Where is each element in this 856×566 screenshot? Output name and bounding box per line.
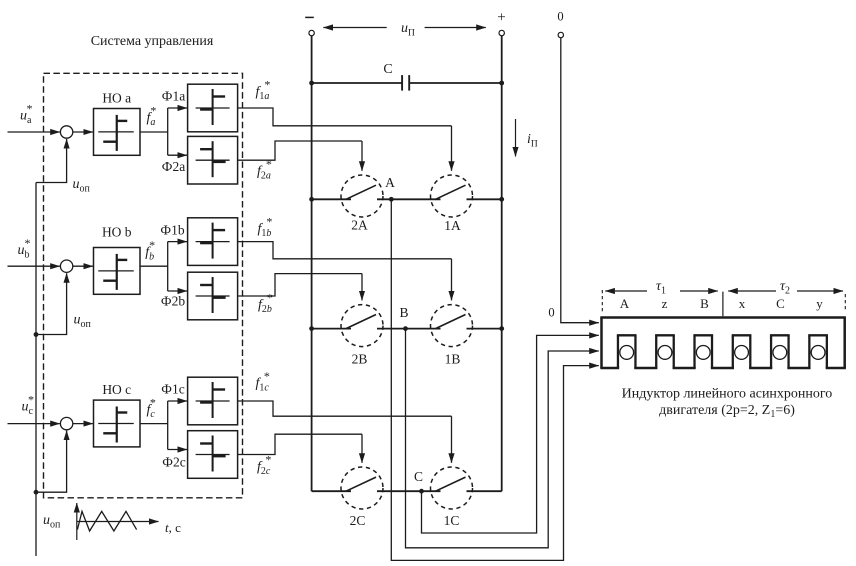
svg-text:C: C bbox=[383, 62, 392, 77]
svg-text:t, с: t, с bbox=[165, 520, 181, 535]
svg-text:HO c: HO c bbox=[102, 382, 131, 397]
svg-text:Ф2c: Ф2c bbox=[162, 455, 185, 470]
svg-text:+: + bbox=[497, 10, 505, 26]
svg-text:Ф1c: Ф1c bbox=[161, 382, 184, 397]
svg-text:2A: 2A bbox=[351, 218, 368, 233]
svg-text:A: A bbox=[385, 175, 395, 190]
svg-text:B: B bbox=[399, 305, 408, 320]
svg-text:0: 0 bbox=[548, 306, 554, 320]
svg-text:Ф2a: Ф2a bbox=[162, 159, 185, 174]
svg-text:Ф2b: Ф2b bbox=[161, 294, 185, 309]
svg-text:C: C bbox=[414, 469, 423, 484]
svg-text:z: z bbox=[662, 296, 668, 311]
svg-text:x: x bbox=[739, 296, 746, 311]
svg-text:1A: 1A bbox=[444, 218, 461, 233]
svg-text:2C: 2C bbox=[350, 513, 366, 528]
svg-text:A: A bbox=[620, 296, 630, 311]
svg-text:B: B bbox=[700, 296, 709, 311]
svg-text:y: y bbox=[816, 296, 823, 311]
svg-text:0: 0 bbox=[557, 10, 563, 24]
svg-text:Ф1a: Ф1a bbox=[162, 89, 185, 104]
svg-text:1C: 1C bbox=[444, 513, 460, 528]
svg-text:HO b: HO b bbox=[102, 225, 132, 240]
svg-text:двигателя (2p=2, Z1=6): двигателя (2p=2, Z1=6) bbox=[659, 403, 795, 420]
svg-text:Ф1b: Ф1b bbox=[160, 223, 184, 238]
svg-text:Индуктор линейного асинхронног: Индуктор линейного асинхронного bbox=[622, 387, 833, 402]
svg-text:HO a: HO a bbox=[102, 90, 131, 105]
svg-text:1B: 1B bbox=[445, 352, 461, 367]
svg-text:Система управления: Система управления bbox=[91, 34, 214, 49]
svg-text:2B: 2B bbox=[352, 352, 368, 367]
svg-text:C: C bbox=[776, 296, 785, 311]
